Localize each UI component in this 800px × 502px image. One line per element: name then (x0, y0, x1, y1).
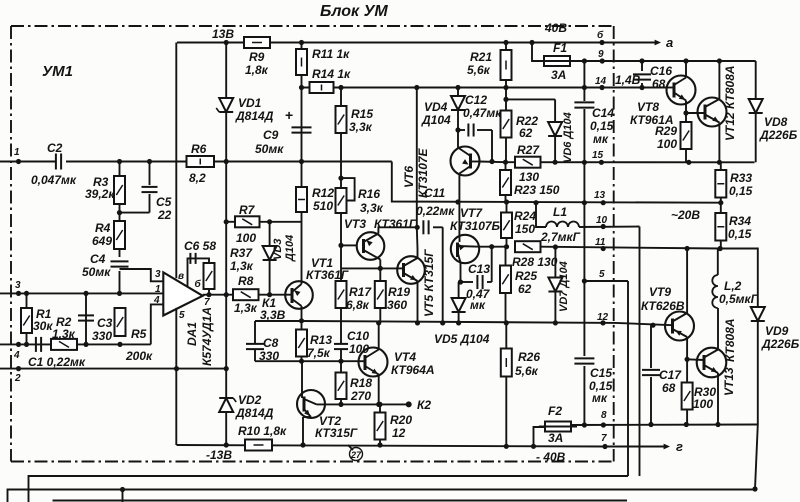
diode VD9 (720, 249, 799, 425)
svg-text:-13В: -13В (206, 448, 232, 462)
svg-text:R24: R24 (514, 209, 536, 223)
svg-text:R6: R6 (191, 142, 207, 156)
resistor R23 (500, 162, 560, 202)
svg-text:С4: С4 (90, 252, 106, 266)
transistor VT7 (450, 206, 501, 282)
resistor R33 (715, 162, 752, 202)
svg-text:R5: R5 (131, 327, 147, 341)
svg-text:3А: 3А (548, 431, 563, 445)
wire base rail y=87.5 R14 row (302, 87, 668, 89)
svg-text:б: б (195, 278, 202, 290)
capacitor C17 (642, 325, 682, 424)
svg-text:VT7: VT7 (460, 206, 483, 220)
resistor R6 (187, 142, 215, 185)
resistor R29 (655, 122, 692, 162)
resistor R26 (501, 323, 541, 446)
svg-text:100: 100 (693, 397, 713, 411)
svg-text:КТ361Г: КТ361Г (306, 268, 349, 282)
diode VD2 (zener) (219, 393, 273, 420)
svg-text:г: г (676, 439, 683, 454)
wire VT3 collector row y=268.4 (379, 260, 381, 269)
resistor R24 (501, 202, 536, 247)
wire -40V rail y=425 (571, 424, 758, 427)
resistor R14 (310, 67, 352, 93)
capacitor C8 and resistor R13 (246, 321, 302, 363)
svg-text:С16: С16 (650, 64, 672, 78)
transistor VT9 (641, 246, 694, 359)
svg-text:3: 3 (155, 269, 161, 280)
svg-text:С1 0,22мк: С1 0,22мк (28, 355, 86, 369)
svg-text:Д814Д: Д814Д (235, 406, 274, 420)
resistor R5 (115, 308, 154, 363)
wire ground rail y=344.4 pin 4 (0, 343, 151, 345)
svg-text:8: 8 (601, 410, 607, 421)
svg-text:R19: R19 (388, 285, 410, 299)
svg-text:R12: R12 (312, 186, 334, 200)
wire VT6 base row to node y=161.5 (480, 161, 506, 164)
svg-text:39,2к: 39,2к (85, 187, 115, 201)
svg-text:С3: С3 (97, 316, 113, 330)
resistor R13 (296, 321, 332, 361)
svg-text:VD7 Д104: VD7 Д104 (558, 261, 570, 312)
svg-text:1,3к: 1,3к (52, 327, 76, 341)
svg-text:13: 13 (594, 190, 606, 201)
wire R11 branch x=301.5 from top rail (301, 43, 303, 88)
svg-text:10: 10 (596, 215, 608, 226)
svg-text:15: 15 (592, 150, 604, 161)
svg-text:68: 68 (652, 77, 666, 91)
svg-text:Д104: Д104 (421, 113, 451, 127)
capacitor C1 (28, 337, 86, 369)
svg-text:6,8к: 6,8к (346, 298, 370, 312)
wire VT3 emitter to C11 row (378, 227, 417, 233)
svg-text:9: 9 (598, 49, 604, 60)
svg-text:5,6к: 5,6к (467, 63, 491, 77)
wire tag 27 (348, 445, 363, 461)
wire pin4 to opamp (151, 304, 164, 344)
svg-text:КТ808А: КТ808А (723, 318, 737, 362)
wire rail to VT9 base (outside border) (616, 323, 673, 325)
svg-text:R15: R15 (351, 107, 373, 121)
svg-text:Д814Д: Д814Д (235, 109, 274, 123)
svg-text:100: 100 (236, 231, 256, 245)
svg-text:КТ964А: КТ964А (391, 363, 435, 377)
svg-text:DA1: DA1 (185, 322, 199, 346)
svg-text:С5: С5 (156, 195, 172, 209)
svg-text:б: б (597, 29, 604, 41)
svg-text:а: а (666, 35, 673, 50)
resistor R16 (with tap) (336, 176, 384, 246)
wire VT4 base row y=361.2 (302, 360, 359, 362)
svg-text:- 40В: - 40В (536, 450, 566, 464)
svg-text:12: 12 (392, 426, 406, 440)
resistor R28 (512, 241, 558, 269)
svg-text:~20В: ~20В (671, 208, 700, 222)
svg-text:КТ361Г: КТ361Г (374, 217, 417, 231)
svg-text:7: 7 (601, 433, 607, 444)
svg-text:VT3: VT3 (344, 217, 366, 231)
wire VT9 emitter node to VT13 base (685, 357, 690, 362)
wire R3 R4 C4 chain x=119.5 (119, 162, 121, 177)
svg-text:2,7мкГ: 2,7мкГ (540, 230, 581, 244)
resistor R37 (204, 246, 254, 295)
svg-text:VD3: VD3 (272, 239, 284, 260)
svg-text:F1: F1 (553, 41, 567, 55)
transistor VT3 (344, 217, 417, 260)
wire bus 1 y=476 (29, 476, 629, 502)
svg-text:F2: F2 (548, 404, 562, 418)
svg-text:С10: С10 (347, 329, 369, 343)
svg-text:R34: R34 (729, 214, 751, 228)
resistor R22 (501, 88, 539, 163)
svg-text:R27: R27 (517, 143, 540, 157)
svg-text:С6 58: С6 58 (184, 239, 216, 253)
capacitor C3 (78, 293, 113, 344)
svg-text:УМ1: УМ1 (42, 63, 73, 80)
svg-text:VD4: VD4 (424, 100, 448, 114)
svg-text:3,3к: 3,3к (360, 201, 384, 215)
svg-text:К2: К2 (417, 398, 431, 412)
svg-text:13В: 13В (212, 27, 234, 41)
wire opamp output y=294.7 (203, 294, 233, 296)
svg-text:R26: R26 (518, 350, 540, 364)
svg-text:К574УД1А: К574УД1А (200, 307, 214, 366)
svg-text:330: 330 (259, 349, 279, 363)
svg-text:150: 150 (515, 222, 535, 236)
svg-text:КТ315Г: КТ315Г (315, 426, 358, 440)
resistor R12 (296, 162, 334, 214)
wire pin 2 line y=368.6 (0, 368, 226, 370)
svg-text:VD9: VD9 (765, 324, 789, 338)
svg-text:0,047мк: 0,047мк (31, 173, 77, 187)
svg-text:С9: С9 (263, 128, 279, 142)
svg-text:R28 130: R28 130 (512, 255, 558, 269)
wire R7 row y=221.8 (226, 221, 235, 223)
svg-text:330: 330 (92, 329, 112, 343)
capacitor C10 (334, 329, 369, 373)
wire +40V collector rail y=61 (576, 60, 756, 62)
svg-text:R29: R29 (655, 124, 677, 138)
capacitor C16 (633, 58, 672, 91)
svg-text:VT4: VT4 (394, 350, 416, 364)
wire x=417 bias vertical (416, 88, 418, 228)
wire pin5 drop x=628 to bus (627, 281, 629, 476)
svg-text:R18: R18 (350, 376, 372, 390)
svg-text:40В: 40В (544, 21, 567, 35)
diode VD4 (421, 88, 465, 148)
svg-text:0,15: 0,15 (590, 119, 614, 133)
svg-text:130: 130 (519, 170, 539, 184)
svg-text:0,15: 0,15 (729, 184, 753, 198)
svg-text:5,6к: 5,6к (515, 364, 539, 378)
svg-text:R16: R16 (358, 187, 380, 201)
svg-text:VT8: VT8 (637, 100, 659, 114)
svg-text:3А: 3А (551, 68, 566, 82)
diode VD5 (434, 279, 490, 346)
transistor VT12 (698, 61, 738, 162)
svg-text:1: 1 (155, 284, 161, 295)
svg-text:КТ626В: КТ626В (641, 299, 685, 313)
wire pin7 arrow г (605, 446, 668, 448)
resistor R9 (244, 37, 270, 77)
wire VT7 emitter row to R24 node (479, 246, 507, 248)
resistor R8 (233, 274, 259, 315)
svg-text:R11 1к: R11 1к (312, 47, 350, 61)
svg-text:22: 22 (157, 208, 172, 222)
svg-text:68: 68 (662, 381, 676, 395)
svg-text:С8: С8 (263, 336, 279, 350)
svg-text:R17: R17 (349, 285, 372, 299)
svg-text:0,47мк: 0,47мк (463, 106, 502, 120)
svg-text:R10 1,8к: R10 1,8к (238, 424, 287, 438)
svg-text:L,2: L,2 (724, 279, 742, 293)
svg-text:мк: мк (592, 391, 608, 405)
transistor VT6 (402, 147, 480, 236)
svg-text:Блок УМ: Блок УМ (320, 3, 388, 20)
inductor L2 (712, 249, 758, 309)
wire opamp V- supply (175, 308, 177, 445)
wire pin 5 line y=281 (584, 280, 628, 282)
svg-text:7: 7 (204, 297, 210, 308)
diode VD3 (263, 222, 296, 295)
wire pin10 drop x=639.5 to bus (639, 227, 641, 477)
wire input rail y=293.4 pin 3 (0, 292, 163, 294)
resistor R10 (238, 424, 287, 451)
svg-text:Д226Б: Д226Б (761, 337, 800, 351)
svg-text:11: 11 (595, 237, 606, 248)
capacitor C4 (82, 252, 129, 279)
svg-text:200к: 200к (125, 349, 153, 363)
wire bus 3 y=500.5 (53, 500, 628, 502)
svg-text:+: + (285, 107, 293, 123)
svg-text:VT6: VT6 (402, 166, 416, 188)
svg-text:5: 5 (179, 310, 185, 321)
resistor R30 (682, 383, 717, 425)
inductor L1 (536, 203, 640, 244)
wire VT2 collector row y=404.4 (317, 403, 409, 405)
svg-text:R7: R7 (239, 203, 256, 217)
transistor VT4 (359, 323, 435, 405)
svg-text:50мк: 50мк (82, 265, 111, 279)
capacitor C13 (461, 247, 492, 312)
resistor R4 (92, 221, 125, 249)
svg-text:Д104: Д104 (284, 235, 296, 262)
wire node 3.3V y=320.8 to rail (302, 320, 304, 322)
resistor R19 (375, 268, 411, 323)
svg-text:С15: С15 (590, 366, 612, 380)
wire C4 to opamp pin3 (120, 269, 164, 281)
svg-text:7,5к: 7,5к (307, 346, 331, 360)
svg-text:мк: мк (593, 132, 609, 146)
svg-text:360: 360 (387, 298, 407, 312)
svg-text:1: 1 (14, 147, 20, 158)
capacitor C14 (574, 85, 614, 146)
svg-text:3,3к: 3,3к (349, 120, 373, 134)
diode VD6 (503, 97, 574, 163)
svg-text:в: в (178, 271, 184, 282)
svg-text:R23 150: R23 150 (514, 183, 560, 197)
svg-text:1,3к: 1,3к (234, 301, 258, 315)
wire mid rail y=322.5 (VT1 collector to pin 12) (302, 321, 617, 323)
svg-text:8,2: 8,2 (189, 171, 206, 185)
svg-text:510: 510 (313, 199, 333, 213)
wire VT2 base drop x=302 (301, 361, 303, 390)
svg-text:VD6 Д104: VD6 Д104 (562, 112, 574, 163)
svg-text:VT12 КТ808А: VT12 КТ808А (723, 65, 737, 141)
svg-text:5: 5 (599, 269, 605, 280)
wire signal jog to y=201.5 (392, 162, 721, 203)
wire input pin 1 line y=161.5 (0, 161, 55, 163)
resistor R3 (85, 175, 125, 204)
wire output rail y=162.3 right (506, 161, 755, 163)
svg-text:1,3к: 1,3к (230, 259, 254, 273)
resistor R34 (715, 203, 751, 249)
svg-text:R8: R8 (238, 274, 254, 288)
svg-text:30к: 30к (33, 319, 53, 333)
svg-text:27: 27 (350, 450, 362, 460)
svg-text:С14: С14 (592, 106, 614, 120)
svg-text:R37: R37 (230, 246, 253, 260)
wire +13V/+40V top rail y=42.5 (177, 42, 659, 44)
svg-text:С12: С12 (465, 93, 487, 107)
svg-text:С17: С17 (659, 368, 682, 382)
wire VT3 base (341, 244, 357, 246)
svg-text:R4: R4 (95, 221, 111, 235)
resistor R25 (500, 247, 537, 323)
svg-text:4: 4 (153, 295, 160, 306)
capacitor C2 (31, 141, 77, 187)
svg-text:0,5мкГ: 0,5мкГ (719, 292, 759, 306)
resistor R20 (375, 402, 413, 445)
wire VT8 emitter node (683, 110, 688, 115)
capacitor C6 feedback (184, 239, 216, 287)
resistor R27 (515, 143, 541, 184)
svg-text:VT5 КТ315Г: VT5 КТ315Г (422, 249, 436, 317)
wire VD9 down to bus (755, 425, 758, 490)
svg-text:R33: R33 (730, 171, 752, 185)
capacitor C5 branch (117, 162, 172, 223)
capacitor C9 (polarized) (255, 88, 312, 162)
resistor R7 (235, 203, 260, 245)
svg-text:R9: R9 (249, 50, 265, 64)
diode VD7 (548, 247, 570, 323)
svg-text:649: 649 (92, 234, 112, 248)
svg-text:3: 3 (15, 280, 21, 291)
svg-text:62: 62 (518, 282, 532, 296)
svg-text:VT9: VT9 (649, 285, 671, 299)
fuse F2 (534, 404, 578, 446)
resistor R15 (336, 88, 374, 179)
svg-text:VD8: VD8 (764, 115, 788, 129)
svg-text:270: 270 (350, 389, 371, 403)
resistor R2 (51, 315, 77, 350)
wire VT5 collector up x=417 (416, 227, 419, 248)
svg-text:1,8к: 1,8к (245, 63, 269, 77)
capacitor C12 (455, 93, 502, 162)
wire bus 2 y=489.5 (8, 490, 756, 502)
svg-text:VD1: VD1 (238, 96, 262, 110)
svg-text:0,15: 0,15 (728, 227, 752, 241)
transistor VT5 (397, 249, 436, 323)
svg-text:R14 1к: R14 1к (312, 67, 351, 81)
svg-text:62: 62 (519, 126, 533, 140)
svg-text:VT13: VT13 (722, 367, 736, 396)
svg-text:L1: L1 (553, 205, 567, 219)
resistor R17 (336, 268, 373, 343)
transistor VT1 (285, 212, 349, 321)
svg-text:VD5 Д104: VD5 Д104 (434, 332, 490, 346)
arrow output a (655, 40, 661, 46)
module border (dash-dot) (11, 26, 614, 462)
svg-text:0,22мк: 0,22мк (416, 204, 455, 218)
diode VD8 (749, 61, 798, 162)
svg-text:R20: R20 (390, 413, 412, 427)
op-amp DA1 (153, 269, 214, 366)
transistor VT8 (630, 61, 696, 127)
svg-text:3,3В: 3,3В (260, 308, 286, 322)
wire VD1 branch x=226 (225, 43, 227, 446)
diode VD1 (zener) (216, 96, 273, 123)
svg-text:С13: С13 (468, 262, 490, 276)
svg-text:С2: С2 (47, 141, 63, 155)
wire R28 right row y=248 to R34 node (541, 247, 721, 249)
svg-text:4: 4 (13, 350, 20, 361)
wire opamp V+ supply x=176.3 (175, 43, 177, 279)
svg-text:КТ3107Б: КТ3107Б (450, 219, 501, 233)
svg-text:R13: R13 (310, 333, 332, 347)
svg-text:12: 12 (597, 312, 609, 323)
svg-text:VD2: VD2 (238, 393, 262, 407)
node K2 (406, 401, 412, 407)
svg-text:R21: R21 (470, 50, 492, 64)
fuse F1 (532, 41, 576, 82)
resistor R11 (296, 47, 350, 75)
capacitor C15 (574, 358, 612, 405)
transistor VT2 (297, 390, 358, 445)
resistor R18 (336, 373, 373, 405)
svg-text:Д226Б: Д226Б (759, 128, 798, 142)
wire C15 bypass x=584.4 (583, 61, 585, 101)
svg-text:100: 100 (657, 137, 677, 151)
capacitor C11 (416, 186, 455, 323)
svg-text:50мк: 50мк (255, 142, 284, 156)
svg-text:КТ3107Е: КТ3107Е (416, 147, 430, 198)
svg-text:2: 2 (14, 373, 21, 384)
svg-text:мк: мк (470, 298, 486, 312)
wire -13V/-40V bottom rail y=445 (177, 445, 606, 447)
svg-text:R25: R25 (515, 269, 537, 283)
svg-text:14: 14 (595, 76, 607, 87)
wire VT8 base feed y=87.5 to base (602, 87, 667, 89)
resistor R21 (467, 43, 512, 88)
resistor R1 (21, 293, 53, 344)
transistor VT13 (697, 308, 737, 425)
